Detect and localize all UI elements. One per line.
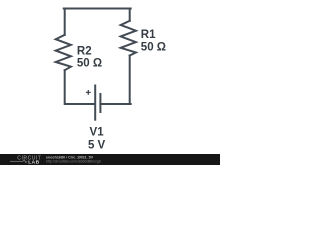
wire right branch top xyxy=(129,9,131,21)
resistor R2 xyxy=(56,35,71,70)
svg-text:50 Ω: 50 Ω xyxy=(141,41,166,53)
battery V1 short plate (-) xyxy=(99,94,101,112)
svg-text:http://circuitlab.com/c8sb0d8l: http://circuitlab.com/c8sb0d8lbnzg6 xyxy=(46,159,101,163)
svg-text:R2: R2 xyxy=(77,45,92,57)
svg-text:R1: R1 xyxy=(141,29,156,41)
footer CircuitLab logo xyxy=(10,155,41,165)
wire left branch bottom (R2 to battery) xyxy=(65,70,94,104)
wire left branch top (to R2) xyxy=(64,9,66,35)
svg-text:50 Ω: 50 Ω xyxy=(77,58,102,70)
footer watermark bar xyxy=(0,154,220,165)
resistor R1 xyxy=(121,21,136,56)
wire top horizontal xyxy=(64,8,131,10)
battery plus sign xyxy=(86,90,91,95)
wire right branch bottom (battery to R1) xyxy=(129,56,131,105)
svg-text:V1: V1 xyxy=(90,127,105,139)
svg-text:5 V: 5 V xyxy=(88,140,106,152)
battery V1 long plate (+) xyxy=(94,86,96,120)
wire battery right xyxy=(100,103,130,105)
svg-text:LAB: LAB xyxy=(28,159,39,165)
